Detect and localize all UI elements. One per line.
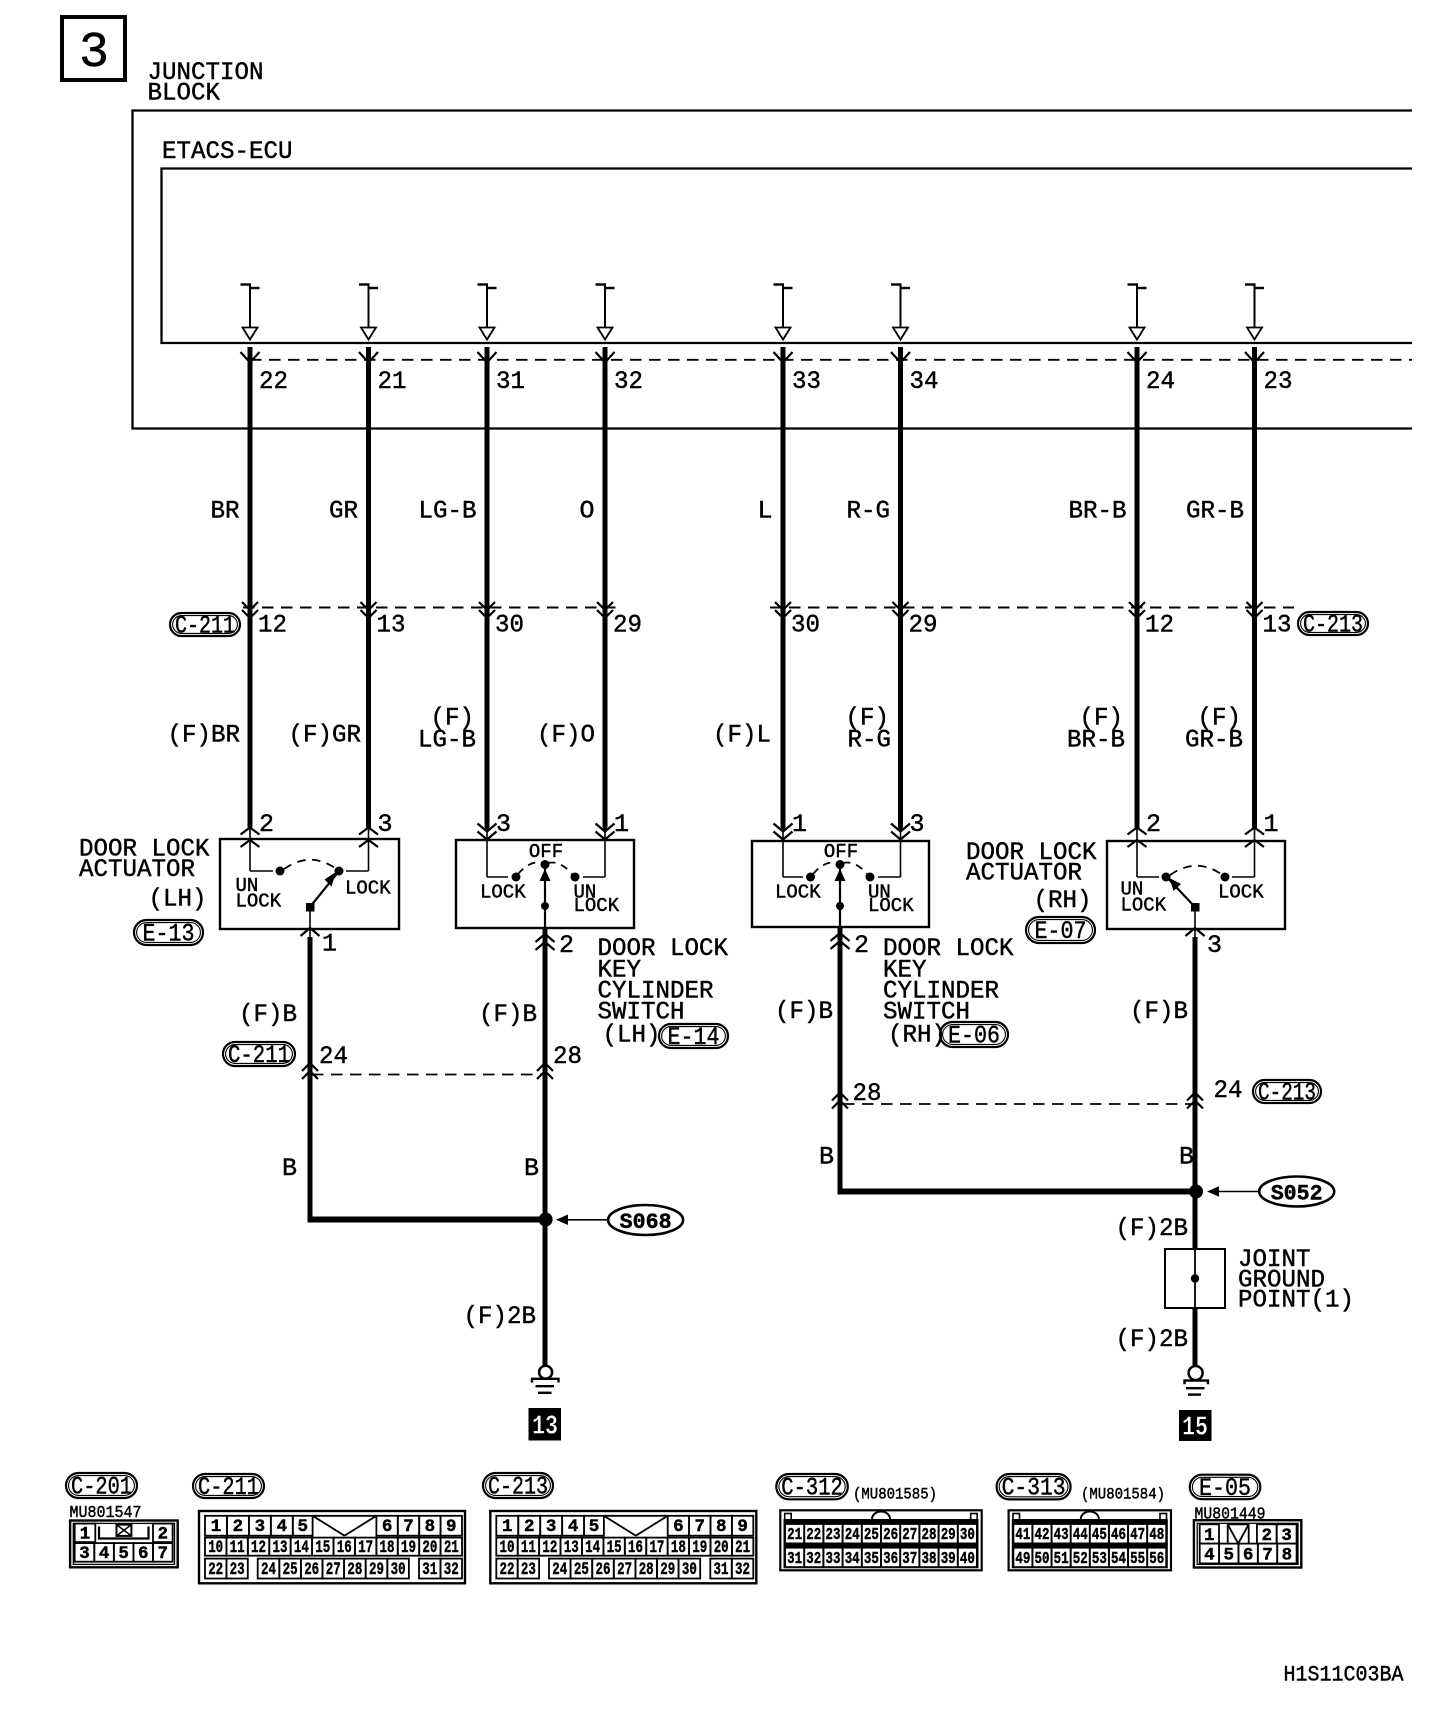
svg-text:28: 28 — [553, 1042, 582, 1071]
svg-text:17: 17 — [358, 1538, 373, 1558]
ground bus wire RH — [838, 1189, 1200, 1195]
svg-text:B: B — [524, 1154, 539, 1183]
svg-text:E-05: E-05 — [1199, 1474, 1251, 1503]
svg-text:22: 22 — [500, 1560, 515, 1580]
connector label E-14 — [659, 1024, 728, 1048]
svg-text:LOCK: LOCK — [345, 878, 391, 900]
svg-text:21: 21 — [735, 1538, 750, 1558]
connector label C-201 — [66, 1473, 137, 1498]
svg-text:BR-B: BR-B — [1067, 726, 1125, 755]
ECU output arrow pin 24 — [1128, 285, 1147, 340]
grid reference 13 — [529, 1408, 562, 1441]
connector crossing arrows at pin 29 — [893, 602, 909, 610]
svg-text:13: 13 — [532, 1413, 558, 1443]
svg-text:GR-B: GR-B — [1186, 497, 1244, 526]
svg-text:35: 35 — [864, 1549, 879, 1568]
svg-text:LOCK: LOCK — [775, 882, 821, 904]
svg-text:29: 29 — [369, 1560, 384, 1580]
svg-text:(F)2B: (F)2B — [464, 1302, 537, 1331]
splice S052 callout — [1207, 1177, 1334, 1207]
svg-text:8: 8 — [716, 1517, 727, 1537]
svg-text:(F)B: (F)B — [239, 1000, 297, 1029]
svg-text:2: 2 — [854, 931, 869, 960]
svg-text:24: 24 — [1146, 367, 1175, 396]
svg-text:LOCK: LOCK — [1218, 882, 1264, 904]
svg-text:(RH): (RH) — [1034, 886, 1092, 915]
connector C-213 dashed line — [770, 607, 1294, 609]
svg-text:LOCK: LOCK — [1121, 895, 1167, 917]
terminal chevron pin 32 — [596, 352, 615, 363]
svg-text:24: 24 — [261, 1560, 276, 1580]
svg-text:30: 30 — [495, 611, 524, 640]
svg-text:13: 13 — [564, 1538, 579, 1558]
svg-text:C-213: C-213 — [1303, 611, 1363, 640]
connector crossing arrows at pin 12 — [1129, 602, 1145, 610]
svg-text:39: 39 — [941, 1549, 956, 1568]
svg-text:13: 13 — [377, 611, 406, 640]
svg-text:5: 5 — [589, 1517, 600, 1537]
ground symbol LH — [532, 1366, 559, 1393]
svg-text:C-312: C-312 — [781, 1474, 843, 1503]
grid reference 15 — [1179, 1410, 1212, 1441]
svg-text:41: 41 — [1015, 1525, 1030, 1544]
svg-text:47: 47 — [1130, 1525, 1145, 1544]
svg-text:(F)B: (F)B — [775, 997, 833, 1026]
wire segment (F)2B RH upper — [1193, 1192, 1198, 1251]
terminal symbols at component pin 3 — [891, 824, 910, 859]
svg-text:18: 18 — [380, 1538, 395, 1558]
svg-text:56: 56 — [1149, 1549, 1164, 1568]
ECU output arrow pin 22 — [241, 285, 260, 340]
svg-text:50: 50 — [1034, 1549, 1049, 1568]
wire LG-B vertical segment — [485, 347, 490, 828]
svg-text:B: B — [819, 1143, 834, 1172]
connector crossing arrows at pin 24 RH — [1187, 1093, 1203, 1101]
svg-text:32: 32 — [735, 1560, 750, 1580]
connector crossing arrows at pin 30 — [775, 602, 791, 610]
svg-text:12: 12 — [1145, 611, 1174, 640]
svg-text:6: 6 — [673, 1517, 684, 1537]
svg-text:2: 2 — [524, 1517, 535, 1537]
svg-text:48: 48 — [1149, 1525, 1164, 1544]
svg-text:16: 16 — [337, 1538, 352, 1558]
svg-text:43: 43 — [1054, 1525, 1069, 1544]
svg-text:(F)2B: (F)2B — [1116, 1325, 1189, 1354]
junction block internal connector dashed line — [250, 359, 1412, 361]
svg-text:3: 3 — [496, 810, 511, 839]
wire R-G vertical segment — [898, 347, 903, 828]
svg-text:30: 30 — [960, 1525, 975, 1544]
svg-text:C-213: C-213 — [1258, 1079, 1316, 1108]
connector pinout C-211 — [199, 1511, 465, 1583]
svg-text:GR-B: GR-B — [1185, 726, 1243, 755]
svg-text:(LH): (LH) — [603, 1021, 661, 1050]
svg-text:8: 8 — [1282, 1546, 1293, 1566]
svg-text:(LH): (LH) — [149, 885, 207, 914]
svg-text:R-G: R-G — [847, 497, 891, 526]
ground bus wire LH — [308, 1217, 549, 1223]
svg-text:22: 22 — [806, 1525, 821, 1544]
wire BR-B vertical segment — [1135, 347, 1140, 828]
connector crossing arrows at pin 24 — [302, 1063, 318, 1071]
connector C-213 lower dashed line — [843, 1103, 1194, 1105]
wire segment (F)2B RH lower — [1193, 1307, 1198, 1367]
svg-text:B: B — [1179, 1143, 1194, 1172]
svg-text:32: 32 — [806, 1549, 821, 1568]
svg-text:25: 25 — [283, 1560, 298, 1580]
svg-text:3: 3 — [378, 810, 393, 839]
wire O vertical segment — [603, 347, 608, 828]
svg-text:25: 25 — [574, 1560, 589, 1580]
connector label E-05 — [1190, 1475, 1261, 1500]
connector crossing arrows at pin 13 — [1247, 602, 1263, 610]
svg-text:38: 38 — [922, 1549, 937, 1568]
svg-text:4: 4 — [1204, 1546, 1215, 1566]
connector pinout C-213 — [490, 1511, 756, 1583]
svg-text:26: 26 — [596, 1560, 611, 1580]
connector label E-07 — [1026, 917, 1095, 943]
svg-text:(F)2B: (F)2B — [1116, 1214, 1189, 1243]
svg-text:E-14: E-14 — [668, 1023, 720, 1052]
wire L vertical segment — [781, 347, 786, 828]
svg-text:18: 18 — [671, 1538, 686, 1558]
svg-text:(F)B: (F)B — [1130, 997, 1188, 1026]
terminal chevron pin 24 — [1128, 352, 1147, 363]
svg-text:14: 14 — [294, 1538, 309, 1558]
svg-text:1: 1 — [614, 810, 629, 839]
svg-text:31: 31 — [714, 1560, 729, 1580]
splice junction dot S068 — [539, 1213, 553, 1227]
svg-text:54: 54 — [1111, 1549, 1126, 1568]
connector pinout C-201 — [70, 1521, 178, 1568]
svg-text:ETACS-ECU: ETACS-ECU — [162, 137, 293, 166]
terminal symbols at component pin 1 — [774, 824, 793, 859]
svg-text:3: 3 — [79, 1544, 90, 1564]
svg-text:21: 21 — [444, 1538, 459, 1558]
svg-text:12: 12 — [542, 1538, 557, 1558]
svg-text:49: 49 — [1015, 1549, 1030, 1568]
terminal symbols at component pin 2 — [1128, 828, 1147, 859]
connector label E-06 — [940, 1022, 1008, 1047]
terminal symbols at component pin 3 — [478, 824, 497, 859]
terminal symbols at component pin 3 — [359, 828, 378, 859]
svg-text:C-313: C-313 — [1002, 1474, 1066, 1503]
svg-text:B: B — [282, 1154, 297, 1183]
svg-text:25: 25 — [864, 1525, 879, 1544]
svg-text:(F)GR: (F)GR — [289, 721, 362, 750]
svg-text:29: 29 — [909, 611, 938, 640]
actuator LH ground wire pin 1 — [301, 928, 320, 1222]
svg-text:12: 12 — [251, 1538, 266, 1558]
svg-text:LG-B: LG-B — [418, 726, 476, 755]
ETACS-ECU outline — [162, 169, 1413, 344]
connector crossing arrows at pin 28 — [537, 1063, 553, 1071]
door lock key cylinder switch RH box — [752, 841, 929, 927]
svg-text:LOCK: LOCK — [236, 891, 282, 913]
terminal chevron pin 33 — [774, 352, 793, 363]
svg-text:26: 26 — [304, 1560, 319, 1580]
svg-text:34: 34 — [845, 1549, 860, 1568]
connector label C-312 — [776, 1474, 848, 1499]
svg-text:26: 26 — [883, 1525, 898, 1544]
svg-text:S052: S052 — [1271, 1182, 1323, 1207]
svg-text:13: 13 — [1263, 611, 1292, 640]
svg-text:BR-B: BR-B — [1069, 497, 1127, 526]
svg-text:15: 15 — [607, 1538, 622, 1558]
svg-text:20: 20 — [714, 1538, 729, 1558]
svg-text:5: 5 — [1224, 1546, 1235, 1566]
svg-text:E-07: E-07 — [1035, 917, 1087, 946]
connector crossing arrows at pin 12 — [242, 602, 258, 610]
terminal symbols at component pin 2 — [241, 828, 260, 859]
connector pinout E-05 — [1194, 1520, 1301, 1567]
svg-text:23: 23 — [826, 1525, 841, 1544]
actuator RH ground wire pin 3 — [1186, 928, 1205, 1191]
svg-text:2: 2 — [1146, 810, 1161, 839]
svg-text:37: 37 — [902, 1549, 917, 1568]
door lock actuator LH box — [220, 839, 399, 929]
svg-text:21: 21 — [378, 367, 407, 396]
svg-text:31: 31 — [787, 1549, 802, 1568]
svg-text:3: 3 — [1207, 931, 1222, 960]
svg-text:3: 3 — [255, 1517, 266, 1537]
svg-text:30: 30 — [391, 1560, 406, 1580]
svg-text:33: 33 — [826, 1549, 841, 1568]
svg-text:28: 28 — [639, 1560, 654, 1580]
svg-text:1: 1 — [792, 810, 807, 839]
svg-text:32: 32 — [614, 367, 643, 396]
connector label E-13 — [134, 920, 203, 945]
svg-text:1: 1 — [211, 1517, 222, 1537]
svg-text:11: 11 — [521, 1538, 536, 1558]
svg-text:12: 12 — [258, 611, 287, 640]
svg-text:LOCK: LOCK — [480, 882, 526, 904]
ground symbol RH — [1185, 1366, 1209, 1395]
svg-text:29: 29 — [660, 1560, 675, 1580]
svg-text:28: 28 — [922, 1525, 937, 1544]
svg-text:1: 1 — [322, 930, 337, 959]
connector label C-211 lower — [223, 1042, 295, 1066]
svg-text:2: 2 — [259, 810, 274, 839]
terminal symbols at component pin 1 — [596, 824, 615, 859]
svg-text:(F)B: (F)B — [479, 1000, 537, 1029]
terminal chevron pin 23 — [1245, 352, 1264, 363]
key cylinder switch LH internals — [487, 858, 605, 928]
svg-text:33: 33 — [792, 367, 821, 396]
wire BR vertical segment — [248, 347, 253, 828]
svg-text:OFF: OFF — [824, 841, 858, 863]
svg-text:22: 22 — [259, 367, 288, 396]
splice junction dot S052 — [1189, 1185, 1203, 1199]
svg-text:4: 4 — [277, 1517, 288, 1537]
svg-text:6: 6 — [382, 1517, 393, 1537]
svg-text:E-13: E-13 — [143, 920, 195, 949]
svg-text:O: O — [579, 497, 594, 526]
svg-text:24: 24 — [1214, 1076, 1243, 1105]
junction block outline — [133, 111, 1413, 429]
svg-text:30: 30 — [682, 1560, 697, 1580]
svg-text:7: 7 — [1262, 1546, 1273, 1566]
svg-text:(F)L: (F)L — [713, 721, 771, 750]
svg-text:4: 4 — [568, 1517, 579, 1537]
svg-text:15: 15 — [1182, 1414, 1208, 1444]
svg-text:45: 45 — [1092, 1525, 1107, 1544]
svg-text:BR: BR — [211, 497, 240, 526]
ECU output arrow pin 23 — [1245, 285, 1264, 340]
svg-text:7: 7 — [158, 1544, 169, 1564]
svg-text:ACTUATOR: ACTUATOR — [966, 859, 1082, 888]
svg-text:R-G: R-G — [848, 726, 892, 755]
ECU output arrow pin 31 — [478, 285, 497, 340]
svg-text:24: 24 — [319, 1042, 348, 1071]
svg-text:LOCK: LOCK — [574, 895, 620, 917]
svg-text:(RH): (RH) — [888, 1021, 946, 1050]
connector label C-213 — [1298, 612, 1368, 635]
key cylinder RH ground wire pin 2 — [831, 927, 850, 1195]
svg-text:2: 2 — [233, 1517, 244, 1537]
svg-text:3: 3 — [546, 1517, 557, 1537]
svg-text:9: 9 — [446, 1517, 457, 1537]
svg-text:42: 42 — [1034, 1525, 1049, 1544]
svg-text:32: 32 — [444, 1560, 459, 1580]
door lock key cylinder switch LH box — [456, 840, 634, 928]
svg-text:17: 17 — [649, 1538, 664, 1558]
ECU output arrow pin 21 — [359, 285, 378, 340]
svg-text:1: 1 — [80, 1525, 91, 1545]
svg-text:51: 51 — [1054, 1549, 1069, 1568]
svg-text:24: 24 — [845, 1525, 860, 1544]
svg-text:2: 2 — [158, 1525, 169, 1545]
svg-text:27: 27 — [326, 1560, 341, 1580]
svg-text:1: 1 — [502, 1517, 513, 1537]
connector crossing arrows at pin 28 RH — [832, 1093, 848, 1101]
svg-text:55: 55 — [1130, 1549, 1145, 1568]
ECU output arrow pin 32 — [596, 285, 615, 340]
svg-text:9: 9 — [737, 1517, 748, 1537]
connector C-211 lower dashed line — [312, 1074, 543, 1076]
svg-text:C-213: C-213 — [488, 1473, 548, 1502]
connector C-211 dashed line — [243, 607, 620, 609]
wire GR-B vertical segment — [1252, 347, 1257, 828]
svg-text:10: 10 — [208, 1538, 223, 1558]
door lock actuator RH internals — [1137, 858, 1255, 929]
wire segment (F)2B LH — [543, 1220, 548, 1367]
svg-text:31: 31 — [496, 367, 525, 396]
svg-text:31: 31 — [422, 1560, 437, 1580]
connector crossing arrows at pin 13 — [361, 602, 377, 610]
key cylinder LH ground wire pin 2 — [536, 928, 555, 1222]
svg-text:46: 46 — [1111, 1525, 1126, 1544]
svg-text:16: 16 — [628, 1538, 643, 1558]
svg-text:MU801547: MU801547 — [70, 1503, 142, 1522]
svg-text:5: 5 — [297, 1517, 308, 1537]
svg-text:44: 44 — [1073, 1525, 1088, 1544]
svg-text:15: 15 — [315, 1538, 330, 1558]
svg-text:29: 29 — [941, 1525, 956, 1544]
svg-text:19: 19 — [401, 1538, 416, 1558]
svg-text:1: 1 — [1264, 810, 1279, 839]
wire GR vertical segment — [366, 347, 371, 828]
svg-text:21: 21 — [787, 1525, 802, 1544]
svg-text:8: 8 — [425, 1517, 436, 1537]
door lock actuator RH box — [1107, 841, 1285, 929]
svg-text:(F)BR: (F)BR — [168, 721, 241, 750]
svg-text:14: 14 — [585, 1538, 600, 1558]
connector crossing arrows at pin 30 — [479, 602, 495, 610]
svg-text:53: 53 — [1092, 1549, 1107, 1568]
svg-text:7: 7 — [695, 1517, 706, 1537]
page number box 3 — [62, 17, 125, 80]
svg-text:34: 34 — [910, 367, 939, 396]
svg-text:5: 5 — [118, 1544, 129, 1564]
svg-text:29: 29 — [613, 611, 642, 640]
svg-text:23: 23 — [1264, 367, 1293, 396]
svg-text:52: 52 — [1073, 1549, 1088, 1568]
svg-text:C-201: C-201 — [71, 1473, 132, 1502]
connector pinout C-313 — [1009, 1510, 1171, 1570]
connector crossing arrows at pin 29 — [597, 602, 613, 610]
door lock actuator LH internals — [250, 858, 369, 929]
svg-text:ACTUATOR: ACTUATOR — [79, 855, 195, 884]
svg-text:6: 6 — [1243, 1546, 1254, 1566]
svg-text:(MU801584): (MU801584) — [1081, 1486, 1165, 1504]
svg-text:22: 22 — [208, 1560, 223, 1580]
svg-text:H1S11C03BA: H1S11C03BA — [1284, 1663, 1405, 1688]
svg-text:LG-B: LG-B — [419, 497, 477, 526]
connector label C-213 pinout — [483, 1473, 553, 1498]
svg-text:OFF: OFF — [529, 841, 563, 863]
svg-text:24: 24 — [552, 1560, 567, 1580]
svg-text:28: 28 — [347, 1560, 362, 1580]
connector pinout C-312 — [780, 1510, 981, 1570]
connector label C-313 — [997, 1474, 1071, 1499]
svg-text:(F)O: (F)O — [537, 721, 595, 750]
svg-text:11: 11 — [230, 1538, 245, 1558]
ECU output arrow pin 34 — [891, 285, 910, 340]
svg-text:23: 23 — [521, 1560, 536, 1580]
terminal chevron pin 21 — [359, 352, 378, 363]
splice S068 callout — [556, 1205, 683, 1235]
svg-text:7: 7 — [403, 1517, 414, 1537]
svg-text:C-211: C-211 — [198, 1473, 259, 1502]
svg-text:40: 40 — [960, 1549, 975, 1568]
svg-text:2: 2 — [559, 931, 574, 960]
svg-text:4: 4 — [99, 1544, 110, 1564]
svg-text:27: 27 — [902, 1525, 917, 1544]
joint ground point box — [1165, 1249, 1225, 1308]
terminal chevron pin 22 — [241, 352, 260, 363]
ECU output arrow pin 33 — [774, 285, 793, 340]
svg-text:BLOCK: BLOCK — [148, 79, 221, 108]
svg-text:20: 20 — [422, 1538, 437, 1558]
svg-text:L: L — [757, 497, 772, 526]
svg-text:(MU801585): (MU801585) — [853, 1486, 937, 1504]
svg-text:LOCK: LOCK — [868, 895, 914, 917]
svg-text:GR: GR — [329, 497, 358, 526]
svg-text:27: 27 — [617, 1560, 632, 1580]
svg-text:C-211: C-211 — [175, 612, 235, 641]
svg-text:POINT(1): POINT(1) — [1238, 1286, 1354, 1315]
svg-text:C-211: C-211 — [228, 1041, 290, 1070]
svg-text:S068: S068 — [620, 1210, 672, 1235]
connector label C-211 pinout — [193, 1474, 264, 1498]
key cylinder switch RH internals — [783, 858, 901, 927]
svg-text:36: 36 — [883, 1549, 898, 1568]
svg-text:10: 10 — [500, 1538, 515, 1558]
svg-text:19: 19 — [692, 1538, 707, 1558]
connector label C-211 — [170, 613, 240, 636]
connector label C-213 lower — [1253, 1080, 1321, 1103]
